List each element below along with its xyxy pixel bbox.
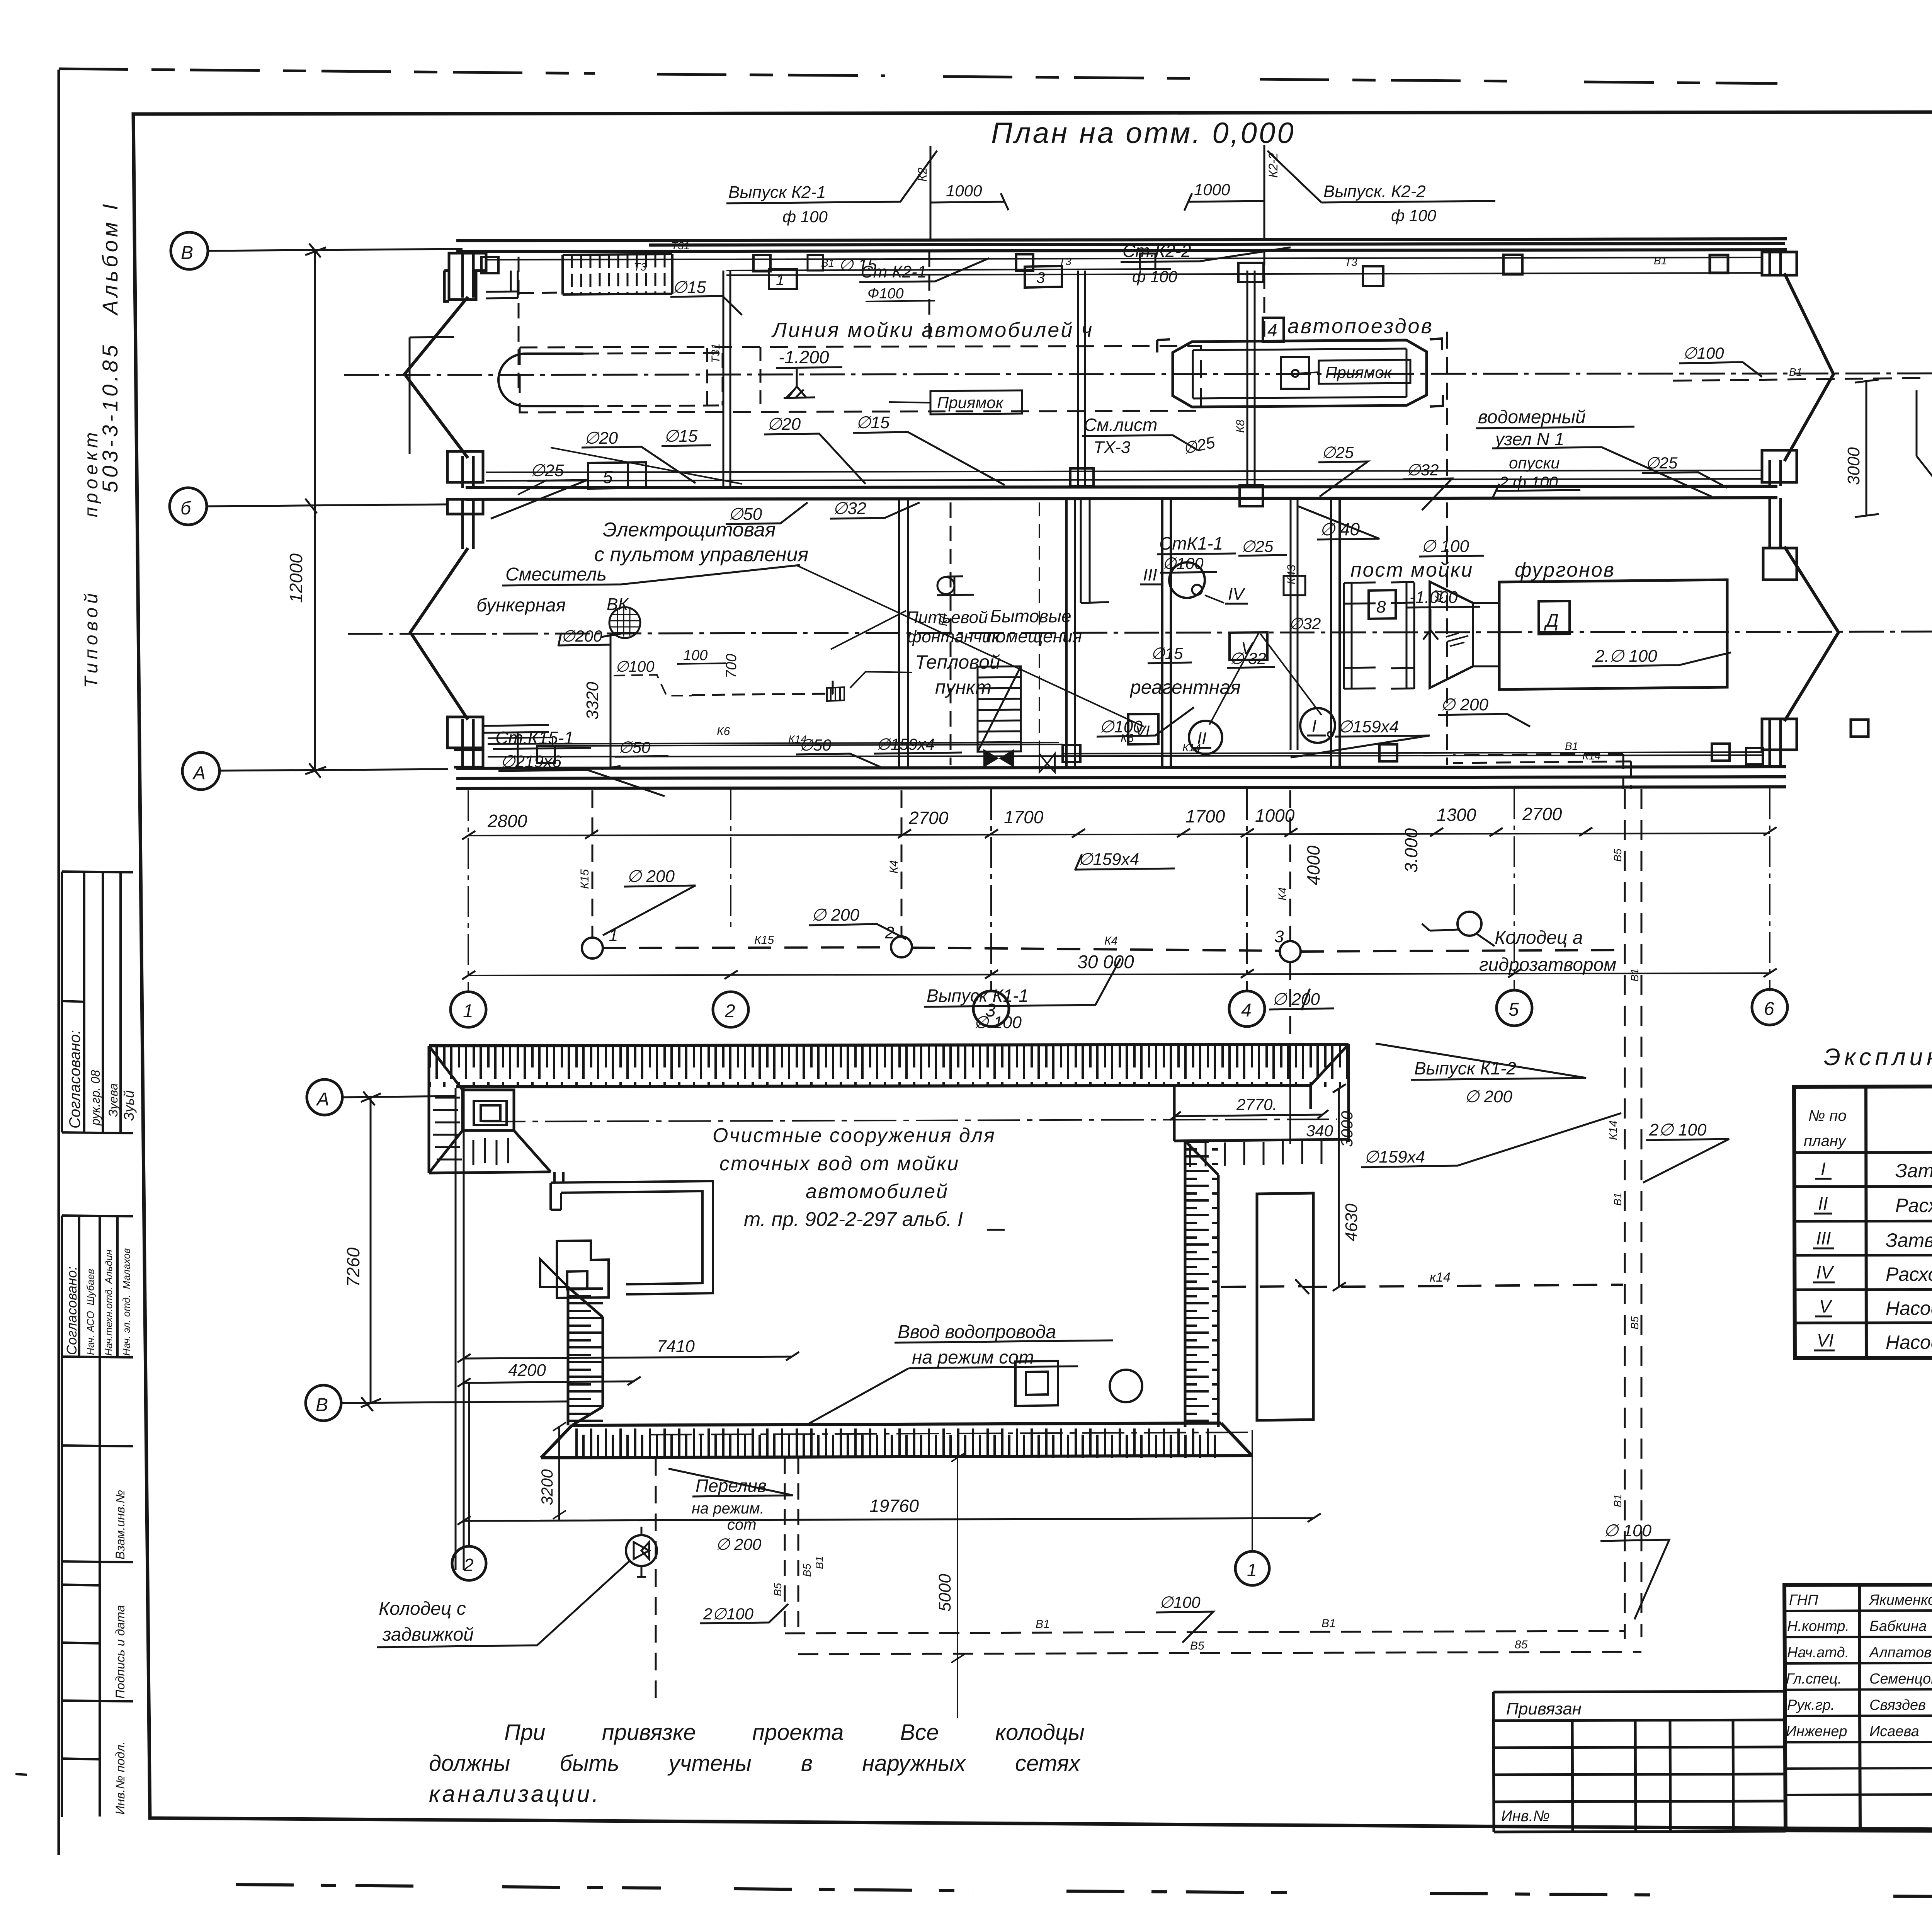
U channel upper left — [551, 1181, 713, 1294]
scan paper left edge — [58, 70, 60, 1855]
svg-text:∅ 200: ∅ 200 — [1272, 990, 1320, 1009]
svg-text:Подпись и дата: Подпись и дата — [113, 1605, 127, 1699]
dim 3000 right vertical — [1855, 380, 1879, 517]
south wall band — [572, 1425, 1221, 1458]
svg-text:∅15: ∅15 — [672, 278, 706, 297]
signatures table verticals — [1859, 1585, 1932, 1832]
svg-text:∅100: ∅100 — [1162, 554, 1204, 572]
partition wall x2337 — [899, 499, 908, 767]
dim 2770 — [1170, 1110, 1328, 1120]
svg-text:Взам.инв.№: Взам.инв.№ — [113, 1490, 127, 1559]
svg-text:Инженер: Инженер — [1786, 1723, 1847, 1740]
sidebar table 2 box — [62, 1216, 133, 1357]
svg-text:Расходный бак полиакриламид: Расходный бак полиакриламида — [1886, 1263, 1932, 1285]
svg-text:рук.гр. 08: рук.гр. 08 — [88, 1070, 102, 1126]
dimension line row1 — [468, 833, 1770, 836]
svg-text:водомерный: водомерный — [1478, 407, 1586, 427]
svg-text:ТХ-3: ТХ-3 — [1094, 438, 1131, 457]
svg-text:фургонов: фургонов — [1515, 559, 1615, 581]
dashed K14 line vertical room — [1446, 502, 1448, 765]
svg-text:Приямок: Приямок — [937, 393, 1004, 412]
svg-text:4000: 4000 — [1303, 845, 1323, 885]
svg-text:5: 5 — [1509, 999, 1519, 1020]
FRAGMENT_START — [1917, 249, 1932, 752]
svg-text:∅ 100: ∅ 100 — [1604, 1521, 1651, 1540]
big rect right room — [1499, 580, 1727, 690]
west wall band partial — [568, 1287, 603, 1425]
svg-text:гидрозатвором: гидрозатвором — [1479, 955, 1616, 975]
svg-text:т. пр. 902-2-297 альб. I: т. пр. 902-2-297 альб. I — [744, 1208, 963, 1231]
svg-text:Смеситель: Смеситель — [505, 564, 607, 585]
svg-text:Исаева: Исаева — [1869, 1723, 1919, 1740]
svg-text:∅159х4: ∅159х4 — [1338, 717, 1399, 736]
svg-text:II: II — [1197, 729, 1206, 748]
connector to north wall — [554, 1172, 563, 1183]
svg-text:А: А — [316, 1089, 329, 1110]
svg-text:В1: В1 — [1654, 255, 1667, 267]
svg-text:ф 100: ф 100 — [1132, 267, 1177, 286]
left wall pillar top — [444, 253, 486, 301]
svg-text:СтК1-1: СтК1-1 — [1159, 533, 1223, 553]
svg-text:б: б — [180, 498, 192, 519]
svg-text:∅100: ∅100 — [615, 658, 655, 675]
priyamok leader bay2 — [1299, 372, 1319, 373]
svg-text:Семенцова: Семенцова — [1869, 1671, 1932, 1687]
svg-text:7260: 7260 — [343, 1247, 363, 1287]
equipment table grid — [1794, 1085, 1932, 1358]
svg-text:∅25: ∅25 — [1645, 454, 1678, 472]
svg-text:IV: IV — [1816, 1262, 1835, 1282]
signature row labels — [1786, 1592, 1932, 1740]
svg-text:∅100: ∅100 — [1683, 344, 1724, 362]
svg-text:85: 85 — [1515, 1638, 1528, 1651]
well with hydro seal — [1458, 912, 1481, 936]
right chevron upper — [1784, 273, 1833, 461]
svg-text:2700: 2700 — [908, 808, 949, 828]
top pipe run B1 — [486, 257, 1762, 271]
valve ticks on T3 — [1039, 754, 1055, 772]
svg-text:2 ф 100: 2 ф 100 — [1499, 473, 1558, 491]
svg-text:III: III — [1143, 565, 1157, 584]
double dashed B1 B5 horizontal — [785, 1631, 1625, 1633]
svg-text:∅32: ∅32 — [1406, 461, 1439, 479]
svg-text:Ввод водопровода: Ввод водопровода — [898, 1322, 1056, 1342]
svg-text:6: 6 — [1764, 999, 1774, 1019]
svg-text:7410: 7410 — [657, 1337, 695, 1356]
svg-text:В5: В5 — [1190, 1639, 1204, 1652]
machine end hooks — [1157, 339, 1443, 407]
svg-text:8: 8 — [1376, 598, 1386, 616]
svg-text:Насос- дозатор: Насос- дозатор — [1886, 1331, 1932, 1353]
axis circle A left — [182, 752, 219, 790]
svg-text:∅ 200: ∅ 200 — [716, 1535, 762, 1553]
heat point symbol — [827, 687, 844, 701]
svg-text:∅15: ∅15 — [1151, 644, 1183, 662]
svg-text:В1: В1 — [813, 1556, 825, 1569]
pillar square right end — [1746, 748, 1763, 764]
svg-text:Бабкина: Бабкина — [1869, 1618, 1927, 1634]
svg-text:∅50: ∅50 — [728, 505, 762, 524]
svg-text:В1: В1 — [1321, 1617, 1336, 1630]
svg-text:∅ 200: ∅ 200 — [1464, 1087, 1512, 1106]
svg-text:Инв.№: Инв.№ — [1501, 1808, 1550, 1825]
svg-text:4: 4 — [1267, 320, 1277, 340]
leader cross upper bay — [518, 448, 742, 495]
svg-text:30 000: 30 000 — [1077, 952, 1134, 972]
svg-text:должны быть учтены в наружн: должны быть учтены в наружных сетях — [429, 1751, 1081, 1776]
vertical K4 dashed to well3 — [1289, 790, 1291, 1059]
left pyramid hatches — [433, 1098, 508, 1165]
svg-text:плану: плану — [1804, 1132, 1847, 1149]
svg-text:1000: 1000 — [1255, 805, 1295, 826]
svg-text:Т31: Т31 — [671, 240, 690, 252]
svg-text:Выпуск К2-1: Выпуск К2-1 — [728, 183, 826, 202]
svg-text:5000: 5000 — [935, 1574, 954, 1612]
svg-text:К2: К2 — [915, 167, 929, 182]
pipe square x3350 — [1284, 576, 1305, 595]
axis circle 1 — [451, 992, 486, 1027]
svg-text:В: В — [181, 243, 193, 263]
svg-text:Нач. АСО Шубаев: Нач. АСО Шубаев — [85, 1269, 96, 1355]
right wall pillar bottom — [1762, 719, 1868, 750]
building top wall — [456, 239, 1787, 252]
inner dashed verticals upper bay — [707, 347, 760, 412]
svg-text:3: 3 — [1274, 927, 1284, 946]
vertical dashed K4 bay2 — [1446, 332, 1448, 486]
svg-text:1: 1 — [776, 272, 784, 289]
pit square bay2 — [1281, 357, 1309, 389]
top wall pipe double run — [726, 273, 1762, 275]
svg-text:Экспликация оборудования ре: Экспликация оборудования реагентной — [1824, 1044, 1932, 1071]
svg-text:См.лист: См.лист — [1084, 415, 1157, 435]
svg-text:Расходный бак Аl² (SO₄)₃: Расходный бак Аl² (SO₄)₃ — [1895, 1195, 1932, 1216]
sewer K4 dashed — [912, 948, 1623, 952]
second bottom pipe line — [488, 742, 1059, 744]
svg-text:2: 2 — [463, 1555, 474, 1575]
svg-text:∅ 100: ∅ 100 — [1421, 537, 1469, 556]
svg-text:В5: В5 — [772, 1583, 784, 1596]
pipe second line bottom K14 — [488, 755, 1762, 757]
svg-text:ГНП: ГНП — [1789, 1592, 1818, 1608]
funnel hatch mark — [1446, 633, 1468, 646]
left chevron lower — [410, 548, 468, 720]
U channel block with pit — [557, 1241, 609, 1298]
svg-text:бункерная: бункерная — [476, 595, 566, 616]
box 3 opening — [1025, 266, 1062, 288]
riser K2 vertical — [930, 146, 932, 242]
svg-text:4: 4 — [1241, 1000, 1252, 1021]
svg-text:Рук.гр.: Рук.гр. — [1787, 1697, 1835, 1713]
svg-text:Насос- дозатор: Насос- дозатор — [1886, 1297, 1932, 1319]
svg-text:3.000: 3.000 — [1401, 828, 1421, 873]
svg-text:Выпуск К1-2: Выпуск К1-2 — [1414, 1058, 1516, 1078]
svg-text:пункт: пункт — [935, 676, 992, 698]
svg-text:3320: 3320 — [583, 682, 602, 720]
left wall — [463, 252, 473, 768]
svg-text:сточных вод от мойки: сточных вод от мойки — [719, 1153, 959, 1175]
svg-text:К4: К4 — [888, 860, 900, 873]
svg-text:2: 2 — [724, 1001, 735, 1021]
dash-dot axis through basin — [483, 1119, 1337, 1122]
dim 5000 vertical — [951, 1453, 964, 1718]
svg-text:∅200: ∅200 — [561, 627, 602, 645]
sidebar margin fields — [62, 1357, 133, 1817]
svg-text:∅32: ∅32 — [833, 499, 866, 518]
svg-text:К6: К6 — [717, 725, 730, 738]
valve symbol on K6 — [983, 749, 1014, 768]
machine unit bay2 — [1173, 340, 1427, 407]
svg-text:Инв.№ подл.: Инв.№ подл. — [113, 1741, 127, 1815]
partition wall x3450 — [1331, 499, 1340, 767]
svg-text:Т31: Т31 — [709, 343, 722, 363]
partition wall x3015 — [1162, 499, 1171, 767]
svg-text:Т3: Т3 — [1059, 255, 1071, 267]
svg-text:∅15: ∅15 — [856, 413, 890, 432]
axis extension verticals below building — [468, 788, 1770, 991]
vertical K15 dashed from building — [592, 790, 594, 938]
svg-text:1700: 1700 — [1185, 806, 1225, 826]
svg-text:1000: 1000 — [1194, 180, 1230, 199]
pipe riser pair T3 bay1 — [1078, 271, 1085, 486]
svg-text:3: 3 — [985, 1000, 996, 1021]
svg-text:Нач.техн.отд. Альдин: Нач.техн.отд. Альдин — [103, 1250, 114, 1356]
svg-text:5: 5 — [603, 467, 613, 487]
right wall — [1770, 250, 1781, 767]
right wall pillar top — [1710, 252, 1797, 275]
svg-text:К4: К4 — [1433, 590, 1446, 603]
pipe K6 along bottom — [488, 737, 1762, 754]
small pipe squares top wall — [808, 254, 1155, 271]
east step hatches — [1190, 1141, 1321, 1167]
building bottom wall — [456, 767, 1786, 788]
right wall pillar mid — [1762, 450, 1797, 580]
svg-text:Связдев: Связдев — [1869, 1697, 1926, 1713]
svg-text:ф 100: ф 100 — [782, 208, 828, 226]
svg-text:Согласовано:: Согласовано: — [64, 1266, 80, 1355]
svg-text:Т3: Т3 — [1345, 256, 1357, 268]
axis circle 2 — [713, 992, 748, 1027]
dim 12000 vertical — [305, 247, 326, 774]
svg-text:12000: 12000 — [286, 553, 306, 603]
signatures table rows — [1784, 1610, 1932, 1795]
axis circle b left — [170, 488, 207, 525]
left wall pillar mid1 — [447, 451, 483, 514]
axis A line — [219, 763, 448, 778]
left chevron upper — [405, 297, 468, 458]
tank circle II — [1189, 721, 1222, 754]
svg-text:∅25: ∅25 — [530, 461, 564, 480]
inner tank rectangle — [1257, 1193, 1313, 1420]
axis V line — [208, 243, 463, 257]
svg-text:1000: 1000 — [946, 182, 982, 200]
svg-text:А: А — [192, 763, 206, 783]
svg-text:В1: В1 — [1612, 1494, 1624, 1507]
svg-text:задвижкой: задвижкой — [382, 1624, 474, 1645]
svg-text:Зуьй: Зуьй — [121, 1090, 137, 1121]
svg-text:∅25: ∅25 — [1321, 443, 1354, 461]
svg-text:В5: В5 — [1629, 1316, 1641, 1330]
svg-text:1300: 1300 — [1437, 805, 1476, 825]
svg-text:Нач. эл. отд. Малахов: Нач. эл. отд. Малахов — [121, 1248, 132, 1356]
axis b line — [207, 499, 448, 513]
box 8 — [1369, 590, 1396, 619]
svg-text:∅20: ∅20 — [584, 429, 618, 448]
svg-text:∅219х6: ∅219х6 — [500, 752, 562, 771]
sewer K15 dashed — [603, 947, 891, 948]
north wall left pyramid — [429, 1046, 551, 1173]
small squares K8 ends — [1238, 263, 1264, 506]
pipe riser pair lower x2800 — [1081, 499, 1109, 603]
svg-text:∅ 200: ∅ 200 — [627, 867, 675, 886]
K14 dashed into basin — [1221, 1286, 1301, 1287]
svg-text:Перелив: Перелив — [696, 1476, 767, 1496]
svg-text:∅32: ∅32 — [1289, 615, 1321, 633]
svg-text:ф 100: ф 100 — [1391, 206, 1436, 225]
box 5 on middle wall — [588, 462, 646, 489]
svg-text:К4: К4 — [1104, 935, 1117, 947]
axis circle 5 — [1497, 990, 1532, 1026]
svg-text:пост мойки: пост мойки — [1350, 559, 1473, 581]
svg-text:автопоездов: автопоездов — [1287, 315, 1434, 338]
dim 3320 vertical — [601, 634, 621, 769]
riser K8 vertical pair bay2 — [1247, 271, 1255, 485]
well 3 — [1280, 941, 1301, 962]
svg-text:Приямок: Приямок — [1325, 363, 1393, 381]
drain grid circle — [609, 607, 640, 638]
svg-text:№ по: № по — [1808, 1107, 1847, 1124]
partition wall x2770 — [1066, 499, 1075, 767]
svg-text:2∅100: 2∅100 — [703, 1605, 754, 1623]
svg-text:100: 100 — [683, 647, 707, 664]
dim 7260 vertical — [361, 1093, 381, 1407]
wash post funnel — [1430, 582, 1473, 688]
riser T31 vertical pair — [723, 271, 730, 486]
tank circle III — [1169, 562, 1205, 598]
left edge double line — [456, 1088, 464, 1570]
svg-text:канализации.: канализации. — [429, 1781, 601, 1807]
sidebar table 1 box — [62, 872, 133, 1133]
priyamok label box bay1 — [930, 390, 1022, 414]
axis circle A lower — [307, 1079, 342, 1115]
left wall pillar bottom — [447, 717, 483, 767]
wash trench rounded slot — [498, 354, 526, 406]
svg-text:Гл.спец.: Гл.спец. — [1786, 1671, 1842, 1687]
pit drain circle bay2 — [1292, 370, 1299, 377]
svg-text:Типовой проект: Типовой проект — [81, 429, 102, 688]
dim 4200 — [457, 1377, 641, 1387]
middle square pit — [1015, 1361, 1058, 1406]
svg-text:Якименко: Якименко — [1869, 1592, 1932, 1608]
notch step 2770 — [1174, 1086, 1349, 1141]
svg-text:К15: К15 — [754, 934, 774, 947]
stairs lower — [978, 666, 1021, 752]
svg-text:узел N 1: узел N 1 — [1494, 429, 1564, 449]
svg-text:Колодец с: Колодец с — [379, 1599, 466, 1619]
svg-text:План на отм. 0,000: План на отм. 0,000 — [991, 117, 1296, 150]
svg-text:Очистные сооружения для: Очистные сооружения для — [713, 1124, 996, 1147]
svg-text:К2-2: К2-2 — [1266, 153, 1280, 178]
well 2 — [891, 936, 912, 957]
LOWERPLAN_START — [306, 1044, 1669, 1718]
leader diagonals reagent room — [796, 565, 1321, 727]
svg-text:Н.контр.: Н.контр. — [1787, 1618, 1849, 1634]
svg-text:К4: К4 — [1276, 887, 1289, 901]
pipe elbow upper left — [486, 271, 518, 298]
svg-text:на режим сот: на режим сот — [912, 1347, 1034, 1368]
svg-text:Алпатов: Алпатов — [1869, 1645, 1932, 1661]
K2 dash continuation into pit — [929, 249, 1264, 347]
svg-text:∅159х4: ∅159х4 — [1364, 1147, 1425, 1166]
svg-text:1700: 1700 — [1004, 807, 1044, 827]
axis circle 1 lower — [1235, 1551, 1269, 1585]
box 4 label — [1263, 318, 1284, 342]
box 1 opening — [769, 269, 797, 289]
svg-text:При привязке проекта Все: При привязке проекта Все колодцы — [504, 1720, 1085, 1745]
B1 B5 double dashed vertical — [1624, 789, 1626, 1639]
svg-text:В1: В1 — [1789, 366, 1802, 378]
svg-text:1: 1 — [463, 1001, 473, 1021]
svg-text:3000: 3000 — [1844, 447, 1863, 485]
dim 7410 — [457, 1352, 799, 1362]
svg-text:I: I — [1312, 717, 1316, 735]
svg-text:II: II — [1818, 1193, 1828, 1214]
svg-text:К8: К8 — [1234, 419, 1247, 433]
heat point dashed pipe — [692, 680, 833, 695]
svg-text:∅159х4: ∅159х4 — [1078, 850, 1139, 869]
svg-text:∅20: ∅20 — [767, 415, 801, 434]
building middle wall — [466, 486, 1777, 499]
svg-text:Линия мойки автомобилей ч: Линия мойки автомобилей ч — [771, 318, 1094, 342]
svg-text:В1: В1 — [1036, 1618, 1050, 1631]
svg-text:Согласовано:: Согласовано: — [66, 1030, 83, 1129]
axis dash-dot upper bay — [344, 373, 1932, 375]
axis circle B lower — [306, 1385, 341, 1421]
svg-text:700: 700 — [723, 654, 740, 678]
svg-text:Затворный бак полиакриламид: Затворный бак полиакриламида — [1886, 1229, 1932, 1251]
svg-text:В1: В1 — [1629, 969, 1641, 982]
privyazan box — [1493, 1691, 1786, 1832]
svg-text:опуски: опуски — [1509, 454, 1560, 472]
svg-text:1: 1 — [1247, 1560, 1257, 1580]
svg-text:с пультом управления: с пультом управления — [594, 543, 808, 566]
valve with circle — [626, 1535, 657, 1566]
column squares along top wall — [481, 254, 1522, 286]
drinking fountain symbol — [937, 576, 974, 595]
svg-text:автомобилей: автомобилей — [806, 1180, 949, 1203]
svg-text:∅100: ∅100 — [1159, 1593, 1201, 1611]
pipe square T3 bottom — [1070, 468, 1094, 486]
scan top dashed line — [59, 69, 1777, 83]
pipe riser pair lower x3350 — [1291, 499, 1298, 750]
svg-text:К4: К4 — [937, 613, 949, 626]
svg-text:4200: 4200 — [508, 1361, 546, 1380]
wash post structure — [1344, 582, 1376, 689]
svg-text:VI: VI — [1817, 1330, 1834, 1350]
K14 dashed elbow into building — [1453, 754, 1631, 789]
svg-text:сот: сот — [727, 1516, 757, 1533]
dim 30000 line — [468, 973, 1770, 976]
svg-text:помещения: помещения — [986, 626, 1082, 646]
svg-text:2700: 2700 — [1522, 804, 1562, 824]
axis circle 3 — [973, 991, 1009, 1027]
right chevron lower — [1784, 546, 1838, 721]
box V — [1230, 632, 1267, 660]
axis circle V left — [171, 232, 208, 269]
svg-text:на режим.: на режим. — [692, 1500, 764, 1517]
axis circle 2 lower — [452, 1546, 486, 1580]
north wall right corner — [1311, 1044, 1349, 1142]
priyamok label box bay2 — [1319, 360, 1410, 384]
